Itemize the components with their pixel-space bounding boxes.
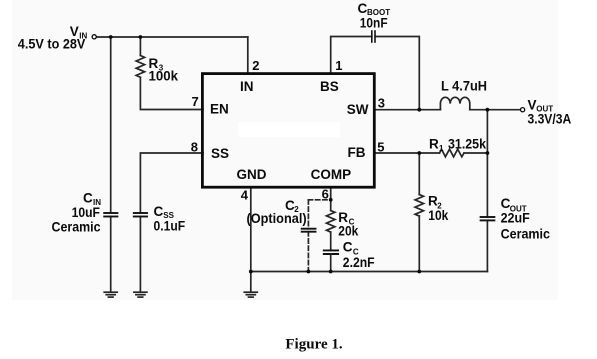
wire R2 bottom: [418, 216, 420, 271]
wire SW to inductor: [374, 109, 440, 111]
resistor R3: [136, 56, 144, 78]
wire inductor to VOUT: [470, 109, 521, 111]
label VIN: [18, 24, 88, 52]
svg-text:31.25k: 31.25k: [448, 137, 486, 152]
wire RC to CC: [330, 232, 332, 250]
ground CSS: [134, 292, 147, 297]
ground GND pin: [244, 272, 257, 298]
label C2: [247, 198, 307, 226]
svg-text:GND: GND: [237, 167, 267, 182]
label R2: [428, 194, 449, 223]
svg-text:Ceramic: Ceramic: [52, 220, 101, 235]
svg-text:(Optional): (Optional): [247, 211, 307, 226]
label CC: [343, 240, 375, 270]
svg-text:C: C: [358, 1, 368, 16]
inductor L1: [440, 97, 469, 109]
svg-text:C: C: [83, 191, 93, 206]
wire dashed C2 branch: [308, 200, 330, 272]
wire R1 right: [464, 152, 487, 154]
wire CSS bottom: [139, 217, 141, 293]
label CIN: [52, 191, 102, 235]
svg-text:1: 1: [439, 144, 444, 153]
svg-text:3.3V/3A: 3.3V/3A: [528, 112, 572, 127]
svg-text:C: C: [154, 204, 164, 219]
label CSS: [154, 204, 186, 234]
svg-text:100k: 100k: [149, 69, 179, 84]
capacitor CIN: [104, 213, 117, 217]
svg-text:2: 2: [252, 58, 259, 73]
svg-text:0.1uF: 0.1uF: [154, 219, 186, 234]
wire VIN vertical to CIN: [110, 37, 112, 213]
svg-text:SW: SW: [347, 102, 369, 117]
svg-text:EN: EN: [210, 102, 229, 117]
capacitor CSS: [134, 213, 147, 217]
svg-text:2.2nF: 2.2nF: [343, 255, 375, 270]
label R3: [149, 56, 179, 84]
wire bottom rail: [251, 271, 488, 273]
svg-text:R: R: [429, 137, 439, 152]
resistor R1: [440, 149, 465, 157]
svg-text:3: 3: [378, 96, 385, 111]
svg-text:22uF: 22uF: [501, 211, 530, 226]
wire CC to rail: [330, 254, 332, 272]
svg-text:10k: 10k: [428, 208, 448, 223]
svg-text:Ceramic: Ceramic: [501, 227, 551, 242]
svg-text:1: 1: [335, 58, 342, 73]
wire VOUT node vertical: [486, 110, 488, 217]
wire boot cap to SW node: [375, 37, 419, 110]
svg-text:V: V: [528, 98, 537, 113]
svg-text:10uF: 10uF: [72, 205, 100, 220]
wire R2 top: [418, 153, 420, 195]
wire R3 bottom to EN: [140, 77, 203, 109]
wire CIN to ground: [110, 217, 112, 293]
capacitor C2: [302, 229, 316, 232]
wire COUT bottom: [486, 220, 488, 271]
svg-text:SS: SS: [211, 146, 229, 161]
label R1: [429, 137, 486, 154]
terminal VOUT: [521, 108, 525, 112]
label CBOOT: [358, 1, 391, 31]
svg-text:Figure 1.: Figure 1.: [285, 337, 342, 353]
capacitor CC: [324, 250, 338, 254]
svg-text:8: 8: [191, 140, 198, 155]
svg-text:C: C: [343, 240, 353, 255]
wire VIN top rail: [96, 36, 248, 38]
terminal VIN: [92, 35, 96, 39]
label COUT: [501, 196, 551, 242]
IC U1: [202, 74, 374, 188]
svg-text:FB: FB: [348, 145, 366, 160]
node junction dots: [109, 35, 490, 273]
wire FB to R1: [374, 152, 440, 154]
ground CIN: [104, 292, 117, 297]
capacitor CBOOT: [372, 31, 375, 42]
svg-text:7: 7: [191, 94, 198, 109]
svg-text:L 4.7uH: L 4.7uH: [441, 79, 487, 94]
svg-text:4: 4: [241, 188, 249, 203]
wire R3 top stub: [139, 37, 141, 56]
wire pin4 GND drop: [250, 187, 252, 272]
svg-text:BS: BS: [320, 79, 339, 94]
wire pin6 COMP drop: [330, 187, 332, 211]
capacitor COUT: [481, 217, 495, 220]
resistor RC: [327, 211, 335, 233]
svg-text:4.5V to 28V: 4.5V to 28V: [18, 37, 86, 52]
svg-text:20k: 20k: [338, 224, 358, 239]
wire pin2 drop: [247, 37, 249, 74]
wire SS to CSS: [140, 153, 203, 213]
wire BS to boot cap: [331, 37, 372, 75]
svg-text:6: 6: [322, 187, 329, 202]
svg-text:5: 5: [377, 140, 384, 155]
svg-text:IN: IN: [240, 79, 254, 94]
svg-text:COMP: COMP: [311, 167, 352, 182]
resistor R2: [415, 195, 423, 217]
label VOUT: [528, 98, 572, 127]
svg-text:10nF: 10nF: [360, 16, 388, 31]
label RC: [338, 210, 358, 239]
